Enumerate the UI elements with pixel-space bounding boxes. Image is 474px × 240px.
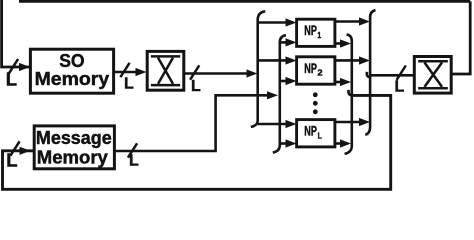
arrow into Message Memory: [20, 147, 31, 155]
svg-text:SO: SO: [59, 51, 84, 71]
svg-text:L: L: [318, 131, 322, 141]
wire inner-right rail tap curl: [348, 90, 352, 96]
wire branch inner-left rail to NP1 bottom input: [280, 41, 287, 44]
wire left drop from top to SO Memory input: [2, 0, 29, 67]
svg-text:NP: NP: [304, 61, 317, 76]
node inner-right rail: [345, 35, 352, 154]
svg-text:L: L: [191, 78, 201, 95]
arrow into crossbar U1: [136, 68, 147, 76]
svg-text:Message: Message: [36, 128, 112, 148]
wire Message Memory output up and to inner-left rail: [115, 95, 269, 151]
block SO Memory: [30, 49, 113, 93]
wire SO Memory output to crossbar U1: [114, 71, 139, 74]
crossbar U2: [414, 57, 451, 94]
svg-text:NP: NP: [304, 23, 317, 38]
wire branch outer-left rail to NP2 top input: [258, 59, 287, 62]
wire NP1 top output to outer-right rail: [335, 20, 360, 23]
wire right riser from crossbar U2 output to top bus: [452, 1, 470, 74]
arrow into NP1 bottom input: [286, 38, 297, 46]
svg-text:Memory: Memory: [37, 148, 108, 168]
arrow NPL top output into outer-right rail: [359, 118, 370, 126]
node inner-left rail: [273, 35, 286, 152]
wire outer-right rail tap curl: [367, 72, 371, 77]
arrow into NPL top input: [286, 120, 297, 128]
node outer-right rail: [365, 10, 375, 135]
arrow NP1 top output into outer-right rail: [359, 17, 370, 25]
svg-text:L: L: [6, 150, 17, 171]
wire inner-right rail tap down to bottom bus and to Message Memory input: [3, 95, 391, 189]
svg-text:1: 1: [317, 30, 321, 40]
svg-text:L: L: [124, 75, 134, 92]
block NP2: [297, 57, 335, 84]
bus slash at crossbar U1 output: [190, 65, 199, 79]
arrow NP2 bottom output into inner-right rail: [340, 78, 351, 86]
wire NPL top output to outer-right rail: [335, 121, 360, 124]
block NP1: [297, 19, 335, 46]
wire branch outer-left rail to NP1 top input: [258, 21, 287, 24]
arrow into NP2 bottom input: [286, 77, 297, 85]
wire NP2 top output to outer-right rail: [335, 59, 360, 62]
arrow into inner-left rail feed: [267, 91, 278, 99]
svg-text:Memory: Memory: [35, 69, 110, 89]
wire branch outer-left rail to NPL top input: [258, 123, 287, 126]
svg-text:2: 2: [317, 68, 322, 78]
wire branch inner-left rail to NPL bottom input: [280, 142, 287, 145]
svg-text:L: L: [129, 153, 139, 170]
node outer-left rail: [251, 11, 265, 127]
wire branch inner-left rail to NP2 bottom input: [280, 80, 287, 83]
wire NP1 bottom output to inner-right rail: [335, 42, 342, 45]
wire NPL bottom output to inner-right rail: [335, 142, 342, 145]
bus slash at Message Memory output: [128, 143, 137, 157]
arrow into NP1 top input: [286, 18, 297, 26]
wire top feedback bus: [19, 0, 470, 3]
arrow NPL bottom output into inner-right rail: [340, 139, 351, 147]
svg-text:L: L: [395, 79, 405, 96]
arrow NP1 bottom output into inner-right rail: [340, 39, 351, 47]
crossbar U1: [147, 51, 184, 90]
arrow into outer-left rail: [247, 69, 258, 77]
block NPL: [297, 120, 335, 147]
bus slash at crossbar U2 input: [397, 66, 406, 80]
bus slash at SO Memory output: [120, 63, 129, 77]
wire NP2 bottom output to inner-right rail: [335, 81, 342, 84]
wire outer-right rail tap to crossbar U2: [370, 74, 413, 77]
wire crossbar U1 output to outer-left rail: [185, 72, 250, 75]
arrow into NP2 top input: [286, 56, 297, 64]
bus slash at Message Memory input: [10, 141, 19, 155]
arrow into NPL bottom input: [286, 139, 297, 147]
svg-text:NP: NP: [304, 124, 317, 139]
node ellipsis dots between NP2 and NPL: [313, 92, 318, 114]
arrow into SO Memory: [19, 63, 30, 71]
bus slash at SO Memory input: [9, 59, 18, 73]
svg-text:L: L: [6, 69, 17, 90]
arrow NP2 top output into outer-right rail: [359, 56, 370, 64]
block Message Memory: [34, 126, 114, 169]
